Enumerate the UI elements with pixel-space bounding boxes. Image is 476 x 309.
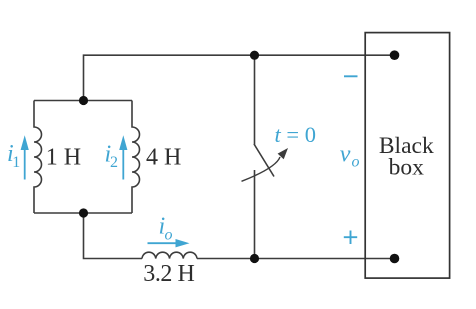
inductor L2 4 H (right branch) bbox=[132, 101, 140, 214]
black box outline bbox=[365, 33, 449, 279]
wire: left loop bottom edge bbox=[34, 212, 132, 214]
svg-text:box: box bbox=[389, 154, 425, 180]
node D (switch bottom junction) bbox=[250, 254, 259, 263]
node C (switch top junction) bbox=[250, 51, 259, 60]
svg-text:v: v bbox=[340, 142, 351, 168]
svg-text:o: o bbox=[352, 154, 360, 171]
svg-text:1: 1 bbox=[12, 154, 20, 171]
switch motion arrowhead bbox=[278, 148, 288, 159]
svg-text:t = 0: t = 0 bbox=[275, 122, 316, 147]
black box upper terminal bbox=[390, 50, 400, 60]
wire: bottom left drop from node B bbox=[84, 213, 143, 259]
current arrow io bbox=[148, 242, 181, 244]
switch blade bbox=[254, 144, 274, 177]
switch upper lead bbox=[254, 55, 256, 144]
svg-text:o: o bbox=[165, 227, 173, 244]
label minus sign of vo bbox=[344, 75, 358, 77]
inductor L1 1 H (left branch) bbox=[34, 101, 42, 214]
node B (bottom of parallel inductors) bbox=[79, 208, 88, 217]
wire: bottom run to black box lower terminal bbox=[197, 258, 395, 260]
svg-text:2: 2 bbox=[110, 154, 118, 171]
svg-text:3.2 H: 3.2 H bbox=[143, 261, 194, 287]
inductor L3 3.2 H (bottom wire) bbox=[142, 252, 197, 258]
current arrow i1 bbox=[24, 149, 26, 180]
svg-text:4 H: 4 H bbox=[146, 145, 181, 171]
wire: left loop top edge bbox=[34, 100, 132, 102]
black box lower terminal bbox=[390, 254, 400, 264]
current arrow i2 bbox=[122, 149, 124, 180]
node A (top of parallel inductors) bbox=[79, 96, 88, 105]
svg-text:1 H: 1 H bbox=[46, 145, 81, 171]
label plus sign of vo bbox=[344, 231, 357, 245]
switch motion arc bbox=[242, 157, 281, 181]
switch lower lead bbox=[254, 170, 256, 259]
wire top: node A to black box upper terminal bbox=[84, 55, 395, 100]
